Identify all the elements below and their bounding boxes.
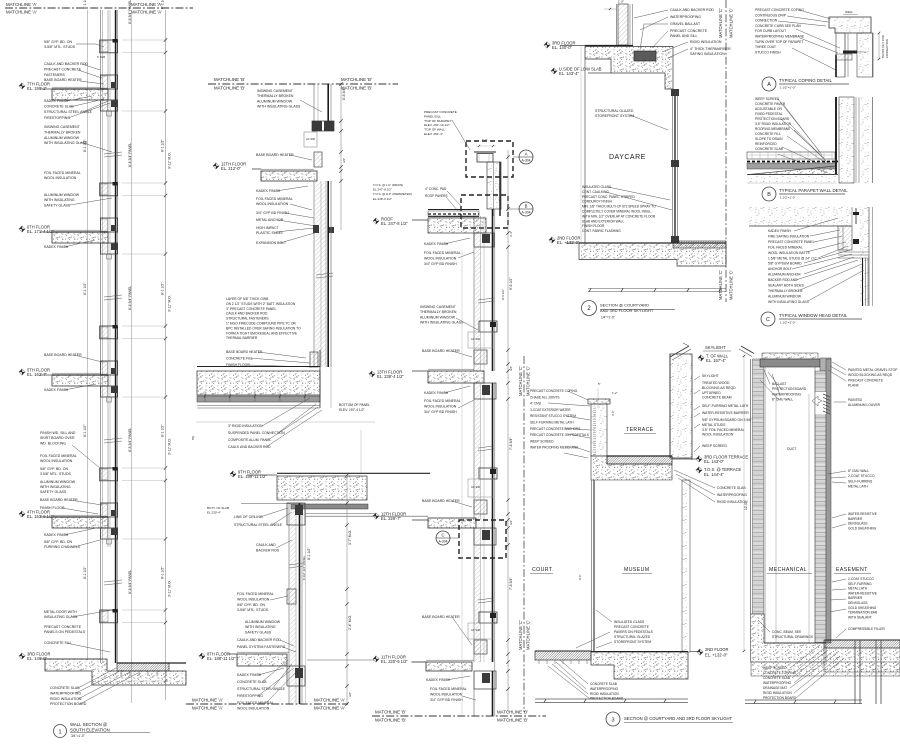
- svg-text:5/8" GYP. BD. ON: 5/8" GYP. BD. ON: [44, 40, 72, 44]
- svg-text:ELEV. 197'-4 1/2": ELEV. 197'-4 1/2": [339, 408, 366, 412]
- svg-text:2-COAT STUCCO: 2-COAT STUCCO: [848, 577, 874, 581]
- svg-text:PANEL/SILL: PANEL/SILL: [424, 114, 441, 118]
- svg-text:WATERPROOFING: WATERPROOFING: [772, 392, 802, 396]
- svg-text:THERMALLY BROKEN: THERMALLY BROKEN: [768, 289, 803, 293]
- svg-text:EL. 143'-0": EL. 143'-0": [704, 459, 725, 464]
- svg-text:WITH INSULATING GLASS: WITH INSULATING GLASS: [768, 300, 810, 304]
- svg-text:AC SIM: AC SIM: [471, 485, 480, 489]
- svg-text:SKYLIGHT: SKYLIGHT: [702, 374, 719, 378]
- svg-text:LINE OF CEILING: LINE OF CEILING: [234, 515, 263, 519]
- svg-text:AC SIM: AC SIM: [471, 628, 480, 632]
- svg-text:WOOL INSULATION: WOOL INSULATION: [40, 459, 73, 463]
- svg-text:PRECAST CONCRETE: PRECAST CONCRETE: [670, 29, 708, 33]
- svg-text:CONCRETE SLAB: CONCRETE SLAB: [717, 486, 746, 490]
- svg-text:CAULK AND BACKER ROD: CAULK AND BACKER ROD: [226, 312, 268, 316]
- svg-text:3" RIGID INSULATION: 3" RIGID INSULATION: [228, 424, 263, 428]
- svg-text:MIN. 1/8" THICK MULTI-CP 672 S: MIN. 1/8" THICK MULTI-CP 672 SPEED SPRAY…: [582, 205, 656, 209]
- svg-text:MATCHLINE 'A': MATCHLINE 'A': [192, 698, 223, 703]
- svg-text:PRECAST CONCRETE: PRECAST CONCRETE: [424, 110, 457, 114]
- svg-text:7'-8 3/4": 7'-8 3/4": [509, 577, 513, 590]
- svg-text:EXPANSION BOLT: EXPANSION BOLT: [256, 241, 287, 245]
- svg-text:4" CMU: 4" CMU: [530, 402, 542, 406]
- svg-text:FOIL FACED MINERAL: FOIL FACED MINERAL: [237, 701, 274, 705]
- svg-text:3'-7" M.O.: 3'-7" M.O.: [348, 530, 352, 545]
- svg-text:'TOP OF WALL': 'TOP OF WALL': [424, 128, 446, 132]
- svg-text:KADEX FINISH: KADEX FINISH: [424, 391, 449, 395]
- svg-text:BARRIER: BARRIER: [848, 596, 863, 600]
- svg-text:1 1/2"=1'-0": 1 1/2"=1'-0": [780, 196, 795, 200]
- svg-text:EL. +132'-0": EL. +132'-0": [705, 653, 728, 658]
- svg-text:3'-4": 3'-4": [509, 231, 513, 237]
- svg-text:WD. BLOCKING: WD. BLOCKING: [40, 441, 66, 445]
- svg-text:ALUMINUM WINDOW: ALUMINUM WINDOW: [257, 99, 293, 103]
- svg-text:TERMINATION BAR: TERMINATION BAR: [848, 611, 878, 615]
- svg-text:T.O.S. @ L.P. (DRAIN): T.O.S. @ L.P. (DRAIN): [373, 183, 403, 187]
- svg-text:DENSGLASS: DENSGLASS: [848, 601, 868, 605]
- svg-text:PAINTED METAL GRAVEL STOP: PAINTED METAL GRAVEL STOP: [848, 368, 898, 372]
- svg-text:C: C: [766, 317, 770, 323]
- svg-text:EL. 229'-7": EL. 229'-7": [381, 516, 402, 521]
- svg-text:WITH INSULATING: WITH INSULATING: [245, 625, 276, 629]
- svg-text:BASE BOARD HEATER: BASE BOARD HEATER: [44, 78, 82, 82]
- svg-text:WOOL INSULATION: WOOL INSULATION: [256, 202, 289, 206]
- svg-text:2ND FLOOR: 2ND FLOOR: [705, 647, 728, 652]
- svg-text:WOOL INSULATION BATTS: WOOL INSULATION BATTS: [768, 251, 811, 255]
- svg-text:SELF-FURRING: SELF-FURRING: [848, 582, 872, 586]
- svg-text:HIGH IMPACT: HIGH IMPACT: [256, 226, 280, 230]
- svg-text:COMPOSITE ALUM. PANEL: COMPOSITE ALUM. PANEL: [228, 438, 271, 442]
- svg-text:3/4" GYP BD FINISH: 3/4" GYP BD FINISH: [424, 262, 457, 266]
- svg-text:METAL DOOR WITH: METAL DOOR WITH: [44, 610, 77, 614]
- svg-text:8'-1 1/2": 8'-1 1/2": [83, 424, 87, 437]
- svg-text:EASEMENT: EASEMENT: [836, 567, 868, 573]
- svg-text:TYPICAL COPING DETAIL: TYPICAL COPING DETAIL: [779, 78, 832, 83]
- svg-text:RIGID INSULATION: RIGID INSULATION: [50, 697, 82, 701]
- svg-text:WATERPROOFING: WATERPROOFING: [590, 687, 619, 691]
- svg-text:5": 5": [598, 382, 601, 386]
- svg-text:1: 1: [58, 729, 61, 735]
- svg-text:PRECAST CONCRETE: PRECAST CONCRETE: [614, 625, 650, 629]
- svg-text:WATERPROOFING: WATERPROOFING: [670, 15, 701, 19]
- svg-text:8'-1 1/2": 8'-1 1/2": [83, 566, 87, 579]
- svg-text:EL. 143'-4": EL. 143'-4": [559, 71, 580, 76]
- svg-text:FIRESTOPPING: FIRESTOPPING: [44, 116, 70, 120]
- svg-text:B: B: [767, 192, 771, 198]
- svg-text:BOTT. OF SLAB: BOTT. OF SLAB: [207, 506, 229, 510]
- svg-text:INSULATING GLASS: INSULATING GLASS: [44, 615, 78, 619]
- svg-text:WITH INSULATING GLASS: WITH INSULATING GLASS: [257, 105, 301, 109]
- svg-text:8'-8 3/4" PANEL: 8'-8 3/4" PANEL: [128, 0, 132, 24]
- svg-text:8'-8 3/4" PANEL: 8'-8 3/4" PANEL: [128, 428, 132, 452]
- svg-text:THERMALLY BROKEN: THERMALLY BROKEN: [420, 310, 457, 314]
- svg-text:CONT. FABRIC FLASHING: CONT. FABRIC FLASHING: [582, 229, 621, 233]
- svg-text:2: 2: [587, 306, 591, 312]
- svg-text:BACKER ROD: BACKER ROD: [256, 549, 280, 553]
- svg-text:STRUCTURAL FASTENERS: STRUCTURAL FASTENERS: [226, 317, 269, 321]
- svg-text:FOIL FACED MINERAL: FOIL FACED MINERAL: [256, 197, 293, 201]
- svg-text:FOR CURB LAYOUT: FOR CURB LAYOUT: [755, 29, 786, 33]
- svg-text:3/4": 3/4": [348, 692, 352, 697]
- svg-text:CHASE ALL JOINTS: CHASE ALL JOINTS: [530, 395, 559, 399]
- svg-text:T.O.S. @ H.P. (PERIMETER): T.O.S. @ H.P. (PERIMETER): [373, 192, 412, 196]
- svg-text:WATERPROOFING: WATERPROOFING: [50, 691, 81, 695]
- svg-text:UPTURNED: UPTURNED: [702, 391, 721, 395]
- svg-text:WITH INSULATING: WITH INSULATING: [44, 198, 75, 202]
- svg-text:ADJUSTABLE OR: ADJUSTABLE OR: [755, 107, 782, 111]
- svg-text:3'-11" M.O.: 3'-11" M.O.: [168, 295, 172, 312]
- svg-text:C: C: [441, 533, 444, 538]
- svg-text:ELEV. 251'-4": ELEV. 251'-4": [424, 132, 443, 136]
- svg-text:CONC. BEAM, SEE: CONC. BEAM, SEE: [772, 630, 802, 634]
- svg-text:3 5/8" MTL. STUDS.: 3 5/8" MTL. STUDS.: [40, 472, 72, 476]
- svg-text:MATCHLINE 'C': MATCHLINE 'C': [729, 270, 734, 300]
- svg-text:THERMALLY BROKEN: THERMALLY BROKEN: [257, 94, 294, 98]
- svg-text:COURT: COURT: [532, 567, 553, 573]
- svg-text:WITH INSULATING GLASS: WITH INSULATING GLASS: [420, 321, 464, 325]
- svg-text:BASE BOARD HEATER: BASE BOARD HEATER: [44, 353, 82, 357]
- svg-text:WATERPROOFING: WATERPROOFING: [717, 493, 747, 497]
- svg-text:A-304: A-304: [521, 211, 530, 215]
- svg-text:SELF-FURRING: SELF-FURRING: [848, 479, 873, 483]
- svg-text:ALUMINUM WINDOW: ALUMINUM WINDOW: [44, 193, 80, 197]
- svg-text:METAL LATH: METAL LATH: [848, 485, 868, 489]
- svg-text:MATCHLINE 'A': MATCHLINE 'A': [314, 698, 345, 703]
- svg-text:SECTION @ COURTYARD AND 3RD FL: SECTION @ COURTYARD AND 3RD FLOOR SKYLIG…: [624, 716, 733, 721]
- svg-text:1 1/2"=1'-0": 1 1/2"=1'-0": [780, 321, 795, 325]
- svg-text:WATER-RESISTIVE: WATER-RESISTIVE: [848, 512, 877, 516]
- svg-text:INSWING CASEMENT: INSWING CASEMENT: [44, 125, 81, 129]
- svg-text:PRECAST CONCRETE PANEL: PRECAST CONCRETE PANEL: [768, 240, 815, 244]
- svg-text:PRECAST CONCRETE ON PEDESTALS: PRECAST CONCRETE ON PEDESTALS: [530, 433, 589, 437]
- svg-text:ALUMINUM WINDOW: ALUMINUM WINDOW: [245, 620, 281, 624]
- svg-text:CONTINUOUS DRIP: CONTINUOUS DRIP: [755, 13, 787, 17]
- svg-text:FOIL FACED MINERAL: FOIL FACED MINERAL: [40, 454, 77, 458]
- svg-text:WOOL INSULATION: WOOL INSULATION: [44, 176, 77, 180]
- svg-text:WATERPROOFING MEMBRANE: WATERPROOFING MEMBRANE: [755, 35, 805, 39]
- svg-text:MUSEUM: MUSEUM: [624, 567, 649, 573]
- svg-text:STUCCO FINISH: STUCCO FINISH: [755, 50, 781, 54]
- svg-text:INSULATED GLASS: INSULATED GLASS: [582, 185, 611, 189]
- svg-text:3.5" FOIL FACED MINERAL: 3.5" FOIL FACED MINERAL: [702, 428, 745, 432]
- svg-text:BASE BOARD HEATER: BASE BOARD HEATER: [256, 153, 294, 157]
- svg-text:STOREFRONT SYSTEM: STOREFRONT SYSTEM: [595, 114, 634, 118]
- svg-text:WITH INSULATING: WITH INSULATING: [40, 485, 71, 489]
- svg-text:THREE COAT: THREE COAT: [755, 45, 776, 49]
- svg-text:8'-1 1/2": 8'-1 1/2": [161, 0, 165, 9]
- svg-text:3'-6": 3'-6": [611, 410, 615, 416]
- svg-text:K SIM: K SIM: [97, 55, 106, 59]
- svg-text:PROTECTION BOARD: PROTECTION BOARD: [763, 696, 797, 700]
- svg-text:TYPICAL WINDOW HEAD DETAIL: TYPICAL WINDOW HEAD DETAIL: [779, 313, 848, 318]
- svg-text:MECHANICAL: MECHANICAL: [769, 567, 807, 573]
- svg-text:DAYCARE: DAYCARE: [609, 154, 646, 161]
- svg-text:SKIRT BOARD OVER: SKIRT BOARD OVER: [40, 436, 75, 440]
- svg-text:SELF-FURRING METAL LATH: SELF-FURRING METAL LATH: [702, 404, 749, 408]
- svg-text:PANELS ON PEDESTALS: PANELS ON PEDESTALS: [44, 630, 86, 634]
- svg-text:PAINTED: PAINTED: [848, 398, 863, 402]
- svg-text:3/4"=1'-0": 3/4"=1'-0": [71, 734, 85, 738]
- svg-text:3/4": 3/4": [509, 520, 513, 525]
- svg-text:WOOL INSULATION: WOOL INSULATION: [702, 433, 734, 437]
- svg-text:STRUCTURAL STEEL ANGLE: STRUCTURAL STEEL ANGLE: [234, 523, 283, 527]
- svg-text:WATER PROOFING MEMBRANE: WATER PROOFING MEMBRANE: [530, 446, 578, 450]
- svg-text:EL. 220'-9 1/2": EL. 220'-9 1/2": [381, 659, 408, 664]
- svg-text:5/8" GYP. BD. ON: 5/8" GYP. BD. ON: [40, 467, 68, 471]
- svg-text:INSWING CASEMENT: INSWING CASEMENT: [257, 89, 294, 93]
- svg-text:9'-6 1/2": 9'-6 1/2": [501, 289, 505, 300]
- svg-text:BLOCKING AS REQD: BLOCKING AS REQD: [702, 386, 736, 390]
- svg-text:3-5/8" MTL. STUDS.: 3-5/8" MTL. STUDS.: [237, 608, 269, 612]
- svg-text:8'-8 3/4": 8'-8 3/4": [342, 87, 346, 100]
- svg-text:RESISTANT STUCCO SYSTEM: RESISTANT STUCCO SYSTEM: [530, 414, 576, 418]
- svg-text:A: A: [767, 82, 771, 88]
- svg-text:MATCHLINE 'A': MATCHLINE 'A': [314, 706, 345, 711]
- svg-text:COMPLETELY COVER MINERAL WOOL: COMPLETELY COVER MINERAL WOOL INSUL.: [582, 210, 652, 214]
- svg-text:8'-1 1/2": 8'-1 1/2": [307, 547, 311, 560]
- svg-text:CAULK AND BACKER ROD: CAULK AND BACKER ROD: [237, 638, 281, 642]
- svg-text:GOLD SHEATHING: GOLD SHEATHING: [848, 526, 877, 530]
- svg-text:SKYLIGHT: SKYLIGHT: [705, 345, 726, 350]
- svg-text:MATCHLINE 'B': MATCHLINE 'B': [375, 718, 406, 723]
- svg-text:ALUMINUM LOUVER: ALUMINUM LOUVER: [848, 403, 881, 407]
- svg-text:PRECAST CONCRETE: PRECAST CONCRETE: [44, 625, 82, 629]
- svg-text:MATCHLINE 'C': MATCHLINE 'C': [718, 270, 723, 300]
- svg-text:COMPRESSIBLE FILLER: COMPRESSIBLE FILLER: [848, 627, 886, 631]
- svg-text:MATCHLINE 'C': MATCHLINE 'C': [526, 620, 531, 650]
- svg-text:WEEP SCREED: WEEP SCREED: [763, 666, 787, 670]
- svg-text:STRUCTURAL GLAZED: STRUCTURAL GLAZED: [595, 109, 634, 113]
- svg-text:AC SIM: AC SIM: [471, 337, 480, 341]
- svg-text:GRAVEL BALLAST: GRAVEL BALLAST: [670, 22, 701, 26]
- svg-text:FOIL FACED MINERAL: FOIL FACED MINERAL: [430, 687, 467, 691]
- svg-text:ELEV. 251'-10 1/2": ELEV. 251'-10 1/2": [424, 123, 450, 127]
- svg-text:MATCHLINE 'B': MATCHLINE 'B': [214, 86, 245, 91]
- svg-text:CONCRETE SLAB: CONCRETE SLAB: [763, 676, 790, 680]
- svg-text:EL. 144'-4": EL. 144'-4": [704, 472, 725, 477]
- svg-text:SECTION @ COURTYARD: SECTION @ COURTYARD: [600, 303, 649, 308]
- svg-text:MATCHLINE 'A': MATCHLINE 'A': [131, 2, 162, 7]
- svg-text:8'-1 1/2": 8'-1 1/2": [161, 424, 165, 437]
- svg-text:EL. 238'-4 1/2": EL. 238'-4 1/2": [377, 374, 404, 379]
- svg-text:WATER-RESISTIVE: WATER-RESISTIVE: [848, 591, 877, 595]
- svg-text:SLOPE TO DRAIN: SLOPE TO DRAIN: [755, 137, 783, 141]
- svg-text:FORM A TIGHT SMOKESEAL AND EFF: FORM A TIGHT SMOKESEAL AND EFFECTIVE: [226, 331, 298, 335]
- svg-text:INSULATED GLASS: INSULATED GLASS: [614, 620, 645, 624]
- svg-text:5/8" GYPSUM BOARD ON 3 5/8": 5/8" GYPSUM BOARD ON 3 5/8": [702, 418, 753, 422]
- svg-text:3'-11" M.O.: 3'-11" M.O.: [168, 438, 172, 455]
- svg-text:DRAINAGE MAT: DRAINAGE MAT: [763, 686, 787, 690]
- svg-text:MATCHLINE 'A': MATCHLINE 'A': [131, 10, 162, 15]
- svg-text:MATCHLINE 'B': MATCHLINE 'B': [497, 710, 528, 715]
- svg-text:EL.247'-8 1/2": EL.247'-8 1/2": [373, 188, 392, 192]
- svg-text:CONCRETE TOPPING: CONCRETE TOPPING: [763, 671, 797, 675]
- svg-text:AND 3RD FLOOR SKYLIGHT: AND 3RD FLOOR SKYLIGHT: [600, 308, 654, 313]
- svg-text:PAVERS ON PEDESTALS: PAVERS ON PEDESTALS: [614, 630, 654, 634]
- svg-text:FOIL FACED MINERAL: FOIL FACED MINERAL: [768, 245, 803, 249]
- svg-text:PROTECTION BOARD: PROTECTION BOARD: [755, 117, 790, 121]
- svg-text:MATCHLINE 'B': MATCHLINE 'B': [497, 718, 528, 723]
- svg-text:1 5/8" METAL STUDS @ 24" O.C.: 1 5/8" METAL STUDS @ 24" O.C.: [768, 256, 818, 260]
- svg-text:EL.230'-4": EL.230'-4": [207, 510, 221, 514]
- svg-text:CONCRETE FILL: CONCRETE FILL: [755, 132, 781, 136]
- svg-text:MATCHLINE 'C': MATCHLINE 'C': [518, 620, 523, 650]
- svg-text:PROTECTION BOARD: PROTECTION BOARD: [590, 697, 624, 701]
- svg-text:B: B: [525, 204, 528, 209]
- svg-text:8'-1 1/2": 8'-1 1/2": [83, 0, 87, 9]
- svg-text:DENSGLASS: DENSGLASS: [848, 522, 868, 526]
- svg-text:CONCRETE SLAB: CONCRETE SLAB: [755, 147, 784, 151]
- svg-text:'TOP OF PARAPET': 'TOP OF PARAPET': [424, 119, 452, 123]
- svg-text:PRECAST CONCRETE: PRECAST CONCRETE: [848, 378, 884, 382]
- svg-text:FOIL FACED MINERAL: FOIL FACED MINERAL: [44, 171, 81, 175]
- svg-text:STRUCTURAL GLAZED: STRUCTURAL GLAZED: [614, 635, 651, 639]
- svg-text:TURN OVER TOP OF PARAPET: TURN OVER TOP OF PARAPET: [755, 40, 804, 44]
- svg-text:CONNECTION: CONNECTION: [755, 19, 778, 23]
- svg-text:5/8" GYP. BD. ON: 5/8" GYP. BD. ON: [237, 603, 265, 607]
- svg-text:3/4" GYP BD FINISH: 3/4" GYP BD FINISH: [256, 211, 289, 215]
- svg-text:STOREFRONT SYSTEM: STOREFRONT SYSTEM: [614, 640, 651, 644]
- svg-text:9'-6": 9'-6": [578, 574, 582, 580]
- svg-text:EL. 188'-11 1/2": EL. 188'-11 1/2": [207, 656, 236, 661]
- svg-text:BACKER ROD AND: BACKER ROD AND: [768, 278, 798, 282]
- svg-text:BASE BOARD HEATER: BASE BOARD HEATER: [226, 350, 263, 354]
- svg-text:CONCRETE SLAB: CONCRETE SLAB: [44, 105, 74, 109]
- svg-text:EL. 140'-0": EL. 140'-0": [552, 45, 573, 50]
- svg-text:FASTENERS: FASTENERS: [44, 73, 65, 77]
- svg-text:5/8" GYPSUM BOARD: 5/8" GYPSUM BOARD: [768, 262, 802, 266]
- svg-text:SAFETY GLASS: SAFETY GLASS: [40, 490, 67, 494]
- svg-text:FIRESTOPPING: FIRESTOPPING: [237, 694, 263, 698]
- svg-text:ROOF PAVERS: ROOF PAVERS: [425, 194, 448, 198]
- svg-text:FOIL FACED MINERAL: FOIL FACED MINERAL: [424, 399, 461, 403]
- svg-text:CORDUROY FINISH: CORDUROY FINISH: [582, 200, 613, 204]
- svg-text:8" CMU WALL: 8" CMU WALL: [772, 398, 793, 402]
- svg-text:MATCHLINE 'B': MATCHLINE 'B': [214, 77, 245, 82]
- svg-text:WALL SECTION @: WALL SECTION @: [70, 722, 107, 727]
- svg-text:CONCRETE SLAB: CONCRETE SLAB: [237, 680, 267, 684]
- svg-text:EL. 247'-8 1/2": EL. 247'-8 1/2": [381, 221, 408, 226]
- svg-text:FINISH WD. SILL AND: FINISH WD. SILL AND: [40, 431, 76, 435]
- svg-text:CONCRETE FILL: CONCRETE FILL: [226, 357, 253, 361]
- svg-text:TYPICAL PARAPET WALL DETAIL: TYPICAL PARAPET WALL DETAIL: [779, 188, 848, 193]
- svg-text:REINFORCED: REINFORCED: [755, 142, 777, 146]
- svg-text:ON 2 1/2" STUDS WITH 2" BATT I: ON 2 1/2" STUDS WITH 2" BATT INSULATION: [226, 302, 296, 306]
- svg-text:12'-0": 12'-0": [744, 502, 748, 510]
- svg-text:CONCRETE SLAB: CONCRETE SLAB: [590, 682, 617, 686]
- svg-text:CAULK AND BACKER ROD: CAULK AND BACKER ROD: [44, 62, 88, 66]
- svg-text:MATCHLINE 'C': MATCHLINE 'C': [518, 366, 523, 396]
- svg-text:BASE BOARD HEATER: BASE BOARD HEATER: [422, 349, 460, 353]
- svg-text:MATCHLINE 'A': MATCHLINE 'A': [6, 2, 37, 7]
- svg-text:4" CONC. PAD: 4" CONC. PAD: [425, 187, 447, 191]
- svg-text:CONCRETE SLAB: CONCRETE SLAB: [50, 686, 80, 690]
- svg-text:FINISH FLOOR: FINISH FLOOR: [40, 506, 65, 510]
- svg-text:ALUMINUM WINDOW: ALUMINUM WINDOW: [44, 136, 80, 140]
- svg-text:KADEX FINISH: KADEX FINISH: [768, 229, 792, 233]
- svg-text:PLANK: PLANK: [848, 384, 860, 388]
- svg-text:FOIL FACED MINERAL: FOIL FACED MINERAL: [424, 251, 461, 255]
- svg-text:1 1/2"=1'-0": 1 1/2"=1'-0": [780, 86, 795, 90]
- svg-text:METAL LATH: METAL LATH: [848, 587, 868, 591]
- svg-text:METAL STUDS: METAL STUDS: [702, 423, 726, 427]
- svg-text:RIGID INSULATION: RIGID INSULATION: [590, 692, 619, 696]
- svg-text:4" THICK THERMAFIBER: 4" THICK THERMAFIBER: [690, 47, 731, 51]
- svg-text:BASE BOARD HEATER: BASE BOARD HEATER: [422, 615, 460, 619]
- svg-text:MATCHLINE 'A': MATCHLINE 'A': [6, 10, 37, 15]
- svg-text:8'-8 3/4" PANEL: 8'-8 3/4" PANEL: [128, 143, 132, 167]
- svg-text:WOOL INSULATION: WOOL INSULATION: [424, 404, 457, 408]
- svg-text:PRECAST CONCRETE COPING: PRECAST CONCRETE COPING: [755, 8, 804, 12]
- svg-text:CAULK AND: CAULK AND: [256, 543, 276, 547]
- svg-text:2'-4" M.O.: 2'-4" M.O.: [348, 615, 352, 630]
- svg-text:WOOL INSULATION: WOOL INSULATION: [237, 597, 270, 601]
- svg-text:SLAB AND EXTERIOR WALL: SLAB AND EXTERIOR WALL: [582, 219, 624, 223]
- svg-text:MATCHLINE 'B': MATCHLINE 'B': [375, 710, 406, 715]
- svg-text:LAYER OF 5/8" THICK GWB: LAYER OF 5/8" THICK GWB: [226, 297, 269, 301]
- svg-text:TREATED WOOD: TREATED WOOD: [702, 381, 730, 385]
- svg-text:8'-1 1/2": 8'-1 1/2": [161, 566, 165, 579]
- svg-text:A-304: A-304: [521, 159, 530, 163]
- svg-text:SEALANT BOTH SIDES: SEALANT BOTH SIDES: [768, 284, 805, 288]
- svg-text:CONCRETE CURB SEE PLAN: CONCRETE CURB SEE PLAN: [755, 24, 801, 28]
- svg-text:3: 3: [611, 718, 614, 724]
- svg-text:CONNECTION: CONNECTION: [885, 39, 889, 58]
- svg-text:WEEP SCREED: WEEP SCREED: [755, 97, 780, 101]
- svg-text:9'-6 1/2": 9'-6 1/2": [509, 277, 513, 290]
- svg-text:8'-1 1/2": 8'-1 1/2": [83, 282, 87, 295]
- svg-text:DUCT: DUCT: [787, 447, 796, 451]
- svg-text:WOOL INSULATION: WOOL INSULATION: [430, 692, 463, 696]
- svg-text:MATCHLINE 'B': MATCHLINE 'B': [341, 77, 372, 82]
- svg-text:KADEX FINISH: KADEX FINISH: [44, 99, 69, 103]
- svg-text:A: A: [525, 152, 528, 157]
- svg-text:EL. 212'-0": EL. 212'-0": [221, 166, 242, 171]
- svg-text:WATER-RESISTIVE BARRIER: WATER-RESISTIVE BARRIER: [702, 411, 749, 415]
- svg-text:1/4"=1'-0": 1/4"=1'-0": [601, 315, 615, 319]
- svg-text:WOOL INSULATION: WOOL INSULATION: [424, 256, 457, 260]
- svg-text:1'-2": 1'-2": [612, 391, 618, 395]
- svg-text:CONCRETE FILL: CONCRETE FILL: [44, 641, 72, 645]
- svg-text:8'-1 1/2": 8'-1 1/2": [161, 282, 165, 295]
- svg-text:BASE BOARD HEATER: BASE BOARD HEATER: [422, 499, 460, 503]
- svg-text:GOLD SHEATHING: GOLD SHEATHING: [848, 606, 877, 610]
- svg-text:BASE BOARD HEATER: BASE BOARD HEATER: [40, 498, 78, 502]
- svg-text:WATERPROOFING: WATERPROOFING: [763, 681, 792, 685]
- svg-text:3/4" GYP BD FINISH: 3/4" GYP BD FINISH: [424, 410, 457, 414]
- svg-text:7'-8 3/4": 7'-8 3/4": [509, 437, 513, 450]
- svg-text:FURRING CHANNELS: FURRING CHANNELS: [44, 545, 81, 549]
- svg-text:3-5/8" MTL. STUDS: 3-5/8" MTL. STUDS: [44, 45, 76, 49]
- svg-text:1'-0": 1'-0": [618, 0, 624, 4]
- svg-text:3'-11" M.O.: 3'-11" M.O.: [168, 152, 172, 169]
- svg-text:WELL: WELL: [845, 10, 854, 14]
- svg-text:ALUMINUM ANCHOR: ALUMINUM ANCHOR: [768, 273, 801, 277]
- svg-text:ALUMINUM WINDOW: ALUMINUM WINDOW: [420, 315, 456, 319]
- svg-text:WEEP SCREED: WEEP SCREED: [530, 439, 554, 443]
- svg-text:BALLAST: BALLAST: [772, 382, 786, 386]
- svg-text:CONCRETE BEAM: CONCRETE BEAM: [702, 396, 732, 400]
- svg-text:FINISH FLOOR: FINISH FLOOR: [582, 224, 605, 228]
- svg-text:AC SIM: AC SIM: [306, 137, 315, 141]
- svg-text:ANCHOR BOLT: ANCHOR BOLT: [768, 267, 792, 271]
- svg-text:RIGID INSULATION: RIGID INSULATION: [690, 40, 722, 44]
- svg-text:3/4" GYP BD FINISH: 3/4" GYP BD FINISH: [430, 698, 463, 702]
- svg-text:ALUMINUM WINDOW: ALUMINUM WINDOW: [768, 294, 802, 298]
- svg-text:8" CMU WALL: 8" CMU WALL: [848, 469, 869, 473]
- svg-text:WOOL INSULATION: WOOL INSULATION: [237, 707, 270, 711]
- svg-text:EL. 157'-4": EL. 157'-4": [706, 358, 727, 363]
- svg-text:SAFETY GLASS: SAFETY GLASS: [245, 630, 272, 634]
